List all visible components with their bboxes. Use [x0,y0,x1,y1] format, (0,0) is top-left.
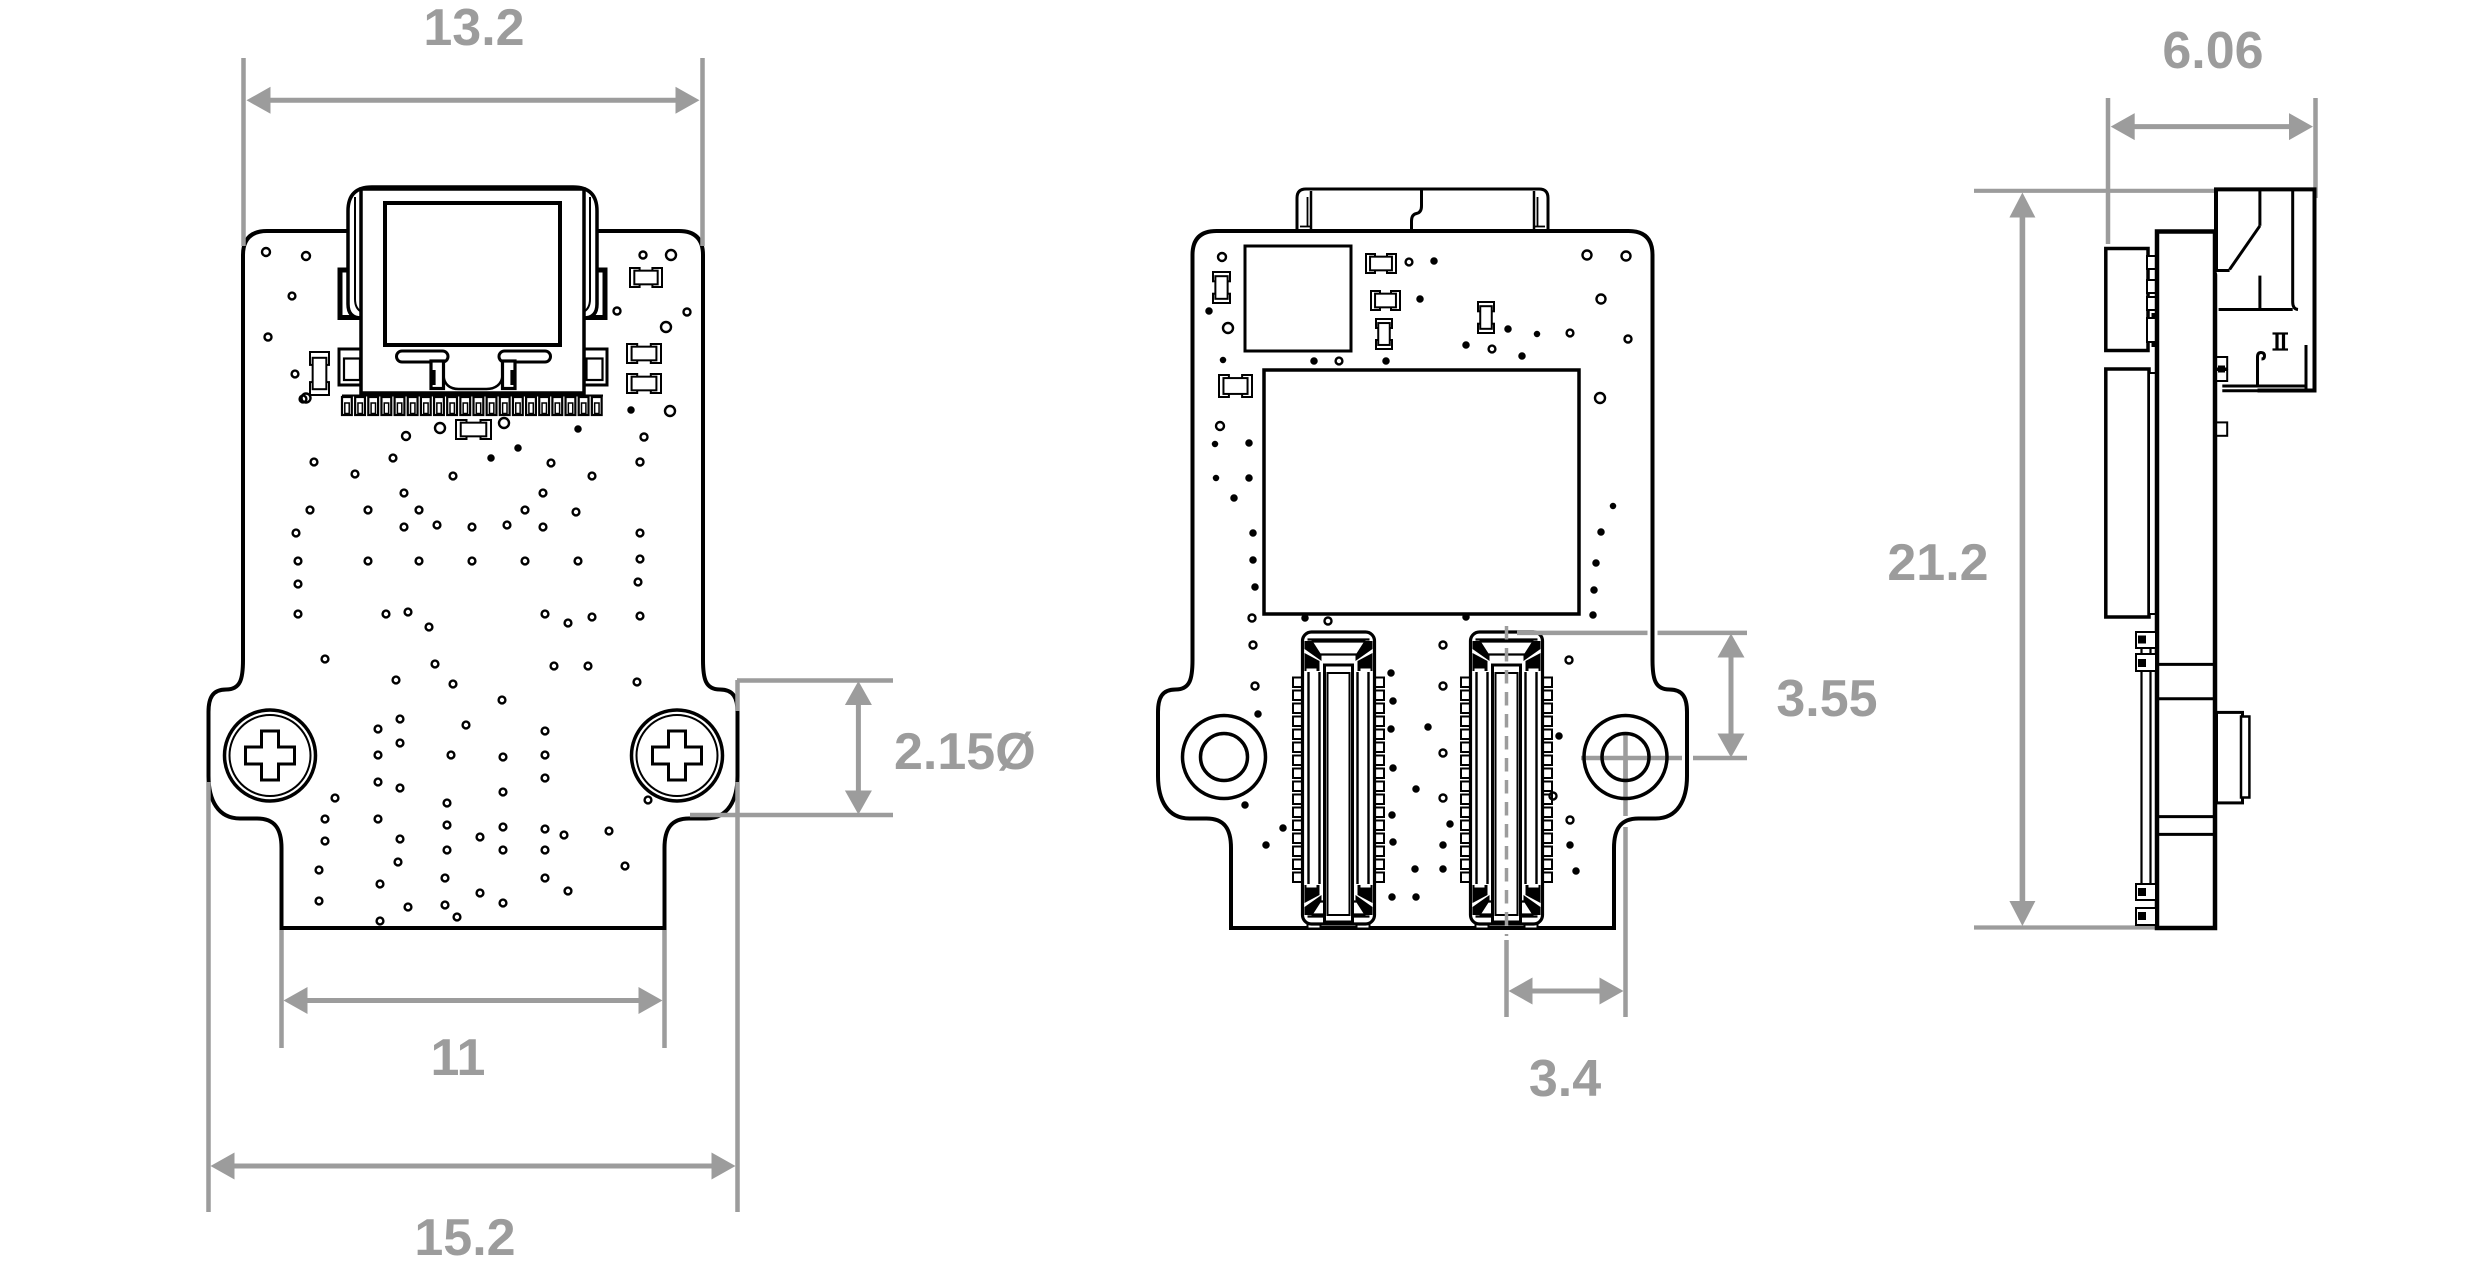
svg-text:11: 11 [431,1029,486,1087]
dimension 2.15 hole [690,681,1036,816]
via field (front view) [262,248,691,924]
connector latch left [397,351,449,362]
chip component C2 (front) [627,344,661,363]
side view: lens barrel [2217,712,2250,803]
side view: small pad below connector [2216,422,2227,435]
FFC connector (front view) [339,187,607,393]
SoC / DSP IC (back view) [1245,246,1351,351]
dimension 13.2 (front top width) [244,0,703,246]
connector side pads [339,269,361,319]
side view: IC pads [2147,256,2157,347]
connector body [361,189,584,393]
dimension 3.4 (connector to hole) [1509,978,1624,1109]
back view mounting hole left [1183,716,1266,799]
FFC connector tab seen from back [1297,189,1548,234]
hole centerline references [1581,733,1682,1017]
side view: FFC connector profile [2216,189,2315,390]
front view mounting screw left [225,710,316,801]
board-to-board connector left [1293,678,1303,688]
chip component C9 (back) [1376,319,1392,349]
back view mounting hole right [1584,716,1667,799]
pin row (front view) [342,396,603,416]
dimension 3.55 (hole to connector) [1517,633,1878,758]
chip component C6 (back) [1213,272,1230,303]
chip component C10 (back) [1478,302,1494,333]
connector window [385,203,560,345]
side view: image sensor block [2106,369,2149,617]
chip component C3 (front) [627,374,661,393]
chip component C7 (back) [1366,254,1396,273]
board-to-board connector right [1461,678,1471,688]
svg-text:21.2: 21.2 [1887,534,1988,592]
dimension 15.2 (front overall width) [209,680,738,1267]
board outline (front view) [209,231,738,928]
chip component C11 (back) [1219,375,1252,397]
chip component C5 (front) [456,420,491,439]
connector wings [348,187,597,318]
chip component C1 (front) [630,268,662,287]
connector bottom dip [444,374,503,389]
side view: polarity mark [2273,334,2289,350]
board outline (back view) [1158,231,1687,928]
connector centerline (dashed) [1505,626,1509,936]
side view: PCB edge [2157,232,2215,929]
via field (back view) [1206,251,1632,901]
dimension 11 (front bottom width) [282,930,665,1087]
dimension 6.06 (side width) [2108,22,2316,244]
connector latch right [499,351,551,362]
side view: internal lines on PCB [2159,664,2213,834]
svg-text:3.4: 3.4 [1529,1050,1601,1108]
dimension 21.2 (overall height) [1887,191,2315,928]
svg-text:15.2: 15.2 [414,1209,515,1267]
front view mounting screw right [632,710,723,801]
chip component C4 (front) [310,352,329,395]
side view: small chip near connector [2216,357,2227,381]
svg-text:13.2: 13.2 [423,0,524,57]
svg-text:2.15Ø: 2.15Ø [894,723,1036,781]
svg-text:3.55: 3.55 [1776,670,1877,728]
side view: sensor IC package [2106,249,2148,351]
image sensor outline (back view) [1264,370,1579,614]
svg-text:6.06: 6.06 [2162,22,2263,80]
chip component C8 (back) [1371,291,1400,310]
side view: B2B connector profile [2136,632,2156,925]
